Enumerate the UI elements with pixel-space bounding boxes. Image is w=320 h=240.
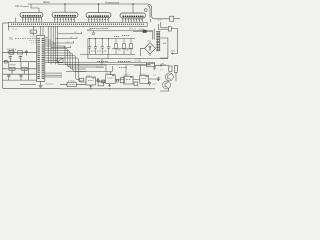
wire gate connections — [95, 79, 158, 81]
svg-text:МГн еч: МГн еч — [129, 28, 136, 30]
IC D1 short right pins — [45, 38, 56, 44]
resistor R3 — [9, 67, 15, 70]
wire drop to D15.1 — [125, 65, 127, 77]
resistor R8 — [123, 39, 125, 44]
wire kbd top rail — [88, 38, 135, 40]
wire drop to D15.2 — [140, 65, 142, 76]
wire drops into D1 top — [41, 26, 44, 35]
wire vertical to band — [150, 19, 152, 23]
gate D14.1 — [86, 77, 95, 85]
capacitor C3 — [19, 56, 22, 62]
node junction D5 drop — [132, 4, 134, 13]
IC D4 pins — [89, 18, 109, 23]
fuse FU1 — [143, 30, 146, 32]
IC D5 RAM chip — [120, 13, 146, 18]
wire band left descender — [7, 26, 9, 30]
wire VT1 emitter — [160, 88, 169, 91]
svg-text:СН: СН — [148, 64, 152, 67]
IC D1 left pin labels — [29, 36, 36, 43]
capacitor C14 — [153, 65, 156, 70]
IC D4 RAM chip — [86, 13, 111, 18]
svg-text:ПЗ: ПЗ — [9, 37, 13, 41]
IC D3 pin labels — [55, 15, 77, 17]
svg-text:+12В: +12В — [170, 50, 176, 52]
svg-text:кн.сл: кн.сл — [12, 29, 18, 31]
svg-text:+5В: +5В — [87, 29, 91, 31]
capacitor C4 — [7, 74, 10, 80]
wire drop to D2 — [31, 4, 39, 12]
svg-text:КР580: КР580 — [10, 64, 17, 66]
svg-text:Уровень: Уровень — [46, 83, 55, 85]
resistor R4 — [21, 67, 27, 70]
label C15 — [68, 80, 75, 82]
wire rail y58.7 — [88, 58, 168, 60]
wire top address bus — [28, 3, 148, 5]
wire lower output run — [158, 22, 168, 30]
bridge rectifier VD7 — [141, 38, 168, 58]
wire D2 left select — [15, 18, 17, 23]
gate symbols — [92, 76, 148, 78]
svg-text:ZQ 5МГц: ZQ 5МГц — [7, 49, 17, 51]
box C16 — [98, 82, 104, 86]
svg-text:Шина: Шина — [43, 0, 50, 4]
wire mid rail y54 — [80, 53, 135, 55]
capacitor C8 — [88, 39, 91, 55]
capacitor C5 — [19, 74, 22, 80]
voltage regulator DA1 — [134, 63, 162, 67]
svg-text:4,7к: 4,7к — [158, 19, 162, 21]
wire gates top rail — [66, 71, 112, 73]
capacitor C17 — [148, 81, 151, 86]
keyboard matrix section — [87, 31, 153, 59]
connector circle — [92, 32, 94, 34]
wire left border rail — [2, 23, 4, 88]
ground under D1 — [38, 82, 42, 88]
resistor R12 — [102, 80, 105, 83]
bus band data bus — [8, 22, 147, 26]
wire rail y74.2 — [3, 73, 37, 75]
capacitor C9 — [94, 39, 97, 55]
wire net stub A — [51, 46, 71, 48]
wire bus lines to bottom right — [48, 61, 155, 77]
capacitor C11 — [107, 39, 110, 55]
bottom ground rail — [3, 87, 155, 90]
IC D4 pin labels — [89, 15, 110, 17]
transistor VT2 — [165, 73, 173, 81]
capacitor C10 — [101, 39, 104, 55]
svg-text:D14.1: D14.1 — [86, 76, 93, 78]
node junction D3 drop — [64, 4, 66, 12]
resistor R7 — [115, 39, 117, 44]
IC D5 pins — [123, 18, 143, 22]
audio output stage — [153, 65, 178, 91]
wire secondary to right — [160, 38, 168, 58]
speaker BA1 — [174, 65, 177, 72]
resistor R2 — [18, 51, 23, 54]
capacitor C12 — [96, 78, 100, 82]
capacitor C13 — [116, 79, 120, 83]
wire rail y62 — [3, 61, 37, 63]
power supply section — [133, 29, 160, 51]
box quartz between — [57, 58, 63, 62]
IC D2 RAM chip — [20, 12, 43, 17]
gate D14.2 — [106, 75, 116, 84]
wire kbd lower rail — [112, 48, 133, 50]
capacitor C2 — [9, 56, 12, 62]
diode VD1 — [5, 60, 8, 63]
resistor R upper — [168, 27, 171, 31]
resistor R11 — [80, 78, 84, 81]
gate D15.2 — [140, 75, 149, 83]
capacitor C1 — [25, 50, 28, 56]
IC D3 RAM chip — [52, 12, 78, 17]
label kbd resistor names — [90, 29, 130, 51]
svg-text:D15.1: D15.1 — [124, 75, 131, 77]
svg-text:AD-0: AD-0 — [15, 4, 22, 8]
wire band to border — [3, 22, 9, 24]
svg-text:~220В: ~220В — [138, 29, 145, 31]
transistor VT1 — [163, 81, 171, 89]
crystal ZQ1 — [3, 50, 37, 62]
label on rail — [96, 62, 131, 68]
wire drop to gates rail — [105, 65, 107, 72]
svg-text:+5В: +5В — [160, 64, 164, 66]
wire rail y68.8 — [3, 68, 37, 70]
wire bus corner down — [148, 4, 170, 19]
IC D1 right pins fan — [45, 38, 106, 82]
svg-text:~36В: ~36В — [161, 43, 167, 45]
wire net stub B — [53, 41, 73, 43]
box buffer 14 — [30, 26, 36, 35]
wire net stub C — [56, 37, 78, 39]
svg-text:D15.2: D15.2 — [140, 74, 147, 76]
wire 220V line — [133, 30, 153, 32]
IC D2 pin labels — [23, 15, 42, 17]
resistor R13 — [120, 78, 124, 83]
svg-text:Клавиатура: Клавиатура — [105, 0, 120, 4]
IC D3 pins — [55, 17, 75, 22]
svg-text:0 7,5В: 0 7,5В — [135, 61, 142, 63]
vertical address lines from band — [48, 26, 81, 64]
bus band labels — [11, 23, 145, 25]
ground under D14.1 — [89, 85, 92, 88]
power filter rail — [80, 54, 168, 58]
connector XS1 — [170, 16, 174, 21]
IC D2 pins — [23, 17, 42, 22]
wire rail y84.5 — [20, 84, 36, 86]
IC D1 internal pin labels — [39, 38, 43, 80]
gate D15.1 — [124, 76, 133, 84]
ground under C13 — [108, 84, 111, 87]
node junction D4 drop — [98, 4, 100, 13]
resistor R9 — [130, 39, 132, 44]
gate inner text — [88, 78, 147, 81]
wire vertical connectors — [9, 62, 29, 80]
svg-text:D14.2: D14.2 — [106, 73, 113, 75]
capacitor C18 — [157, 77, 160, 81]
pin number ticks — [22, 18, 143, 21]
node dots bottom rail — [90, 88, 91, 89]
IC D1 CPU — [37, 26, 45, 81]
transformer T1 primary — [153, 29, 155, 40]
box C15 — [67, 82, 76, 86]
resistor R15 — [169, 66, 172, 71]
wire rail y80 — [3, 79, 37, 81]
wire C15 leads — [60, 83, 86, 85]
resistor R14 — [134, 82, 138, 86]
wire +12V stub — [172, 53, 178, 55]
wire net stub D — [58, 32, 82, 34]
transformer T1 winding — [157, 31, 159, 51]
IC D5 pin labels — [123, 15, 144, 17]
wire to right border — [171, 29, 177, 54]
bottom logic gates — [60, 66, 151, 89]
connector circle top right — [144, 9, 147, 12]
left rails block — [3, 60, 37, 84]
wire +5V rail — [87, 30, 153, 32]
wire +5V audio — [155, 64, 169, 66]
